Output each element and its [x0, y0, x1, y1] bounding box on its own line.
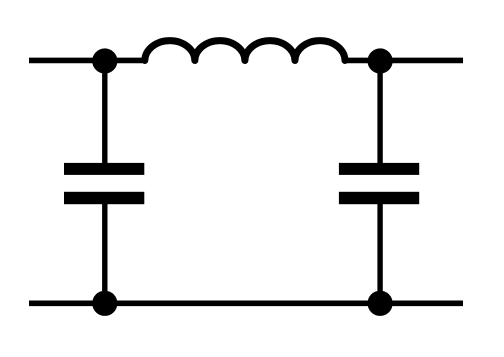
wire: right vertical lower (C2 bottom plate to bottom rail) [377, 199, 382, 303]
capacitor C1 bottom plate [64, 192, 144, 204]
capacitor C2 bottom plate [339, 192, 419, 204]
wire: top-left horizontal (input to node A) [29, 58, 146, 64]
node A junction dot (top-left) [92, 48, 117, 73]
wire: top-right horizontal (inductor to node B) [344, 58, 463, 64]
node C junction dot (bottom-left) [92, 291, 117, 316]
wire: right vertical upper (node B to C2 top plate) [377, 60, 382, 168]
node B junction dot (top-right) [368, 48, 393, 73]
capacitor C1 top plate [64, 163, 144, 175]
node D junction dot (bottom-right) [368, 291, 393, 316]
capacitor C2 top plate [339, 163, 419, 175]
wire: left vertical lower (C1 bottom plate to bottom rail) [102, 199, 107, 303]
wire: bottom rail [29, 300, 463, 306]
inductor L1 (4 humps) [145, 41, 345, 61]
wire: left vertical upper (node A to C1 top plate) [102, 60, 107, 168]
